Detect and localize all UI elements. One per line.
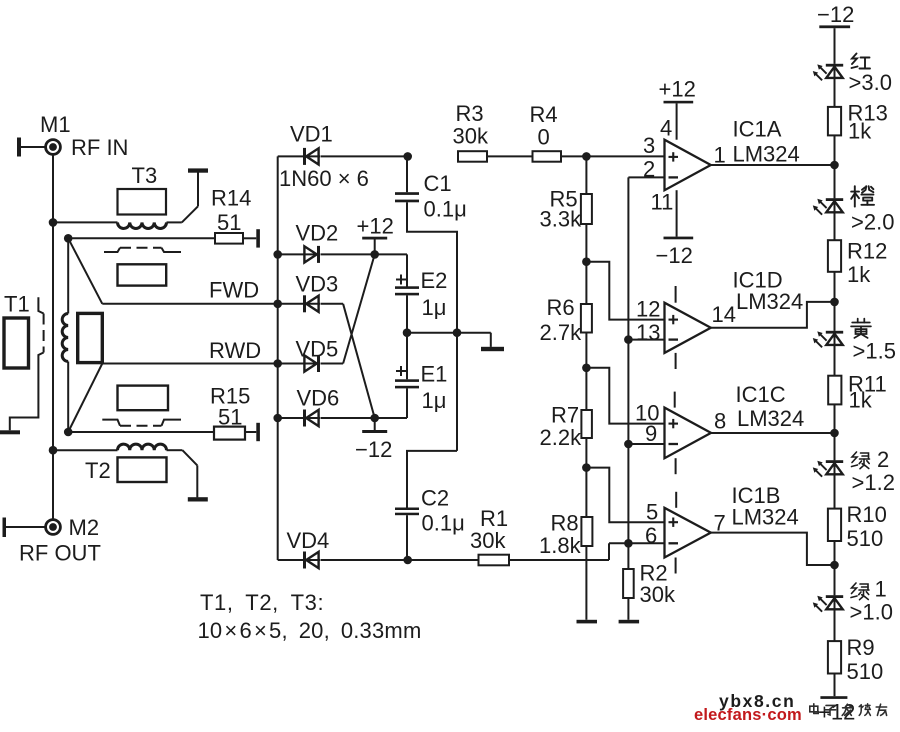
svg-text:LM324: LM324: [732, 505, 799, 530]
wire pin13: [628, 339, 664, 341]
LED green1: [834, 595, 836, 609]
wire R8 bottom: [585, 546, 587, 620]
svg-text:3: 3: [643, 133, 655, 158]
node R15 tap: [64, 428, 73, 437]
svg-text:2: 2: [877, 447, 889, 472]
wire diode bus: [277, 156, 279, 560]
wire RWD diagonal: [68, 364, 102, 433]
wire C1 bottom jog: [407, 202, 457, 451]
wire T3 stub up: [197, 173, 199, 207]
wire R1 to jog: [509, 559, 609, 561]
node C2 bottom: [403, 556, 412, 565]
power +12 bar: [362, 237, 387, 240]
wire E-mid: [407, 332, 491, 334]
svg-text:RWD: RWD: [209, 338, 261, 363]
wire VD1 to node: [321, 155, 408, 157]
wire E1 top: [406, 333, 408, 380]
wire FWD diagonal: [68, 238, 102, 303]
power -12 bar IC1A: [664, 237, 694, 240]
svg-text:>1.5: >1.5: [853, 339, 896, 364]
node VD5 row: [273, 359, 282, 368]
wire R7-R8: [585, 438, 587, 517]
svg-text:>1.0: >1.0: [850, 600, 893, 625]
LED green2: [834, 460, 836, 474]
resistor R7: [581, 410, 592, 438]
wire left sense line upper: [67, 238, 69, 313]
resistor R8: [581, 517, 592, 546]
svg-text:>2.0: >2.0: [851, 210, 894, 235]
node VD3 row: [273, 300, 282, 309]
svg-text:LM324: LM324: [733, 142, 800, 167]
wire C1 top: [406, 156, 408, 192]
wire IC1A V+ stub: [676, 103, 678, 139]
svg-text:4: 4: [660, 116, 672, 141]
svg-text:30k: 30k: [453, 124, 489, 149]
svg-text:30k: 30k: [470, 528, 506, 553]
resistor R3: [458, 151, 487, 162]
wire VD2 to E2: [321, 253, 408, 255]
node R5-R6: [582, 257, 591, 266]
resistor R13: [828, 107, 841, 135]
power -12 bar: [362, 430, 387, 433]
svg-text:R4: R4: [530, 102, 558, 127]
wire VD6 row left: [278, 417, 303, 419]
resistor R5: [581, 194, 592, 224]
wire IC1B V- stub: [675, 558, 677, 574]
resistor R1: [479, 555, 510, 566]
wire IC1A V- stub: [676, 190, 678, 236]
wire T2 coil to bend: [167, 449, 183, 451]
svg-text:+12: +12: [659, 77, 696, 102]
diode VD3: [303, 303, 320, 305]
diode VD6: [303, 417, 320, 419]
svg-text:51: 51: [218, 405, 242, 430]
svg-text:51: 51: [217, 210, 241, 235]
wire M1 terminal to connector: [21, 146, 46, 148]
svg-text:R14: R14: [211, 186, 251, 211]
svg-text:1: 1: [714, 143, 726, 168]
wire jog to C2: [407, 451, 457, 508]
ground R8: [577, 620, 598, 624]
capacitor E1 plus: [396, 370, 406, 372]
node IC1B out: [830, 561, 839, 570]
node pin13 tap: [624, 335, 633, 344]
svg-text:R8: R8: [551, 511, 579, 536]
wire IC1A output: [711, 164, 835, 166]
wire R14 to terminal: [243, 237, 256, 239]
wire to T2 coil: [53, 449, 118, 451]
capacitor E1: [395, 379, 419, 382]
resistor R12: [828, 240, 841, 272]
svg-text:E1: E1: [421, 362, 448, 387]
svg-text:VD4: VD4: [287, 528, 330, 553]
node IC1C out: [830, 429, 839, 438]
wire IC1D V+ stub: [675, 286, 677, 303]
terminal bar above T3: [188, 168, 208, 172]
wire RWD line: [102, 363, 277, 365]
wire IC1C V- stub: [675, 458, 677, 474]
capacitor E2: [395, 286, 419, 289]
wire R15 to terminal: [245, 431, 256, 433]
svg-text:11: 11: [651, 190, 674, 215]
wire LED orange to R12: [834, 212, 836, 240]
svg-text:IC1A: IC1A: [733, 117, 782, 142]
svg-text:6: 6: [645, 523, 657, 548]
diode VD2: [303, 253, 320, 255]
wire VD5 cross diagonal: [343, 254, 375, 363]
svg-text:C2: C2: [421, 486, 449, 511]
wire T3 coil to bend: [167, 221, 182, 223]
resistor R11: [828, 376, 841, 405]
svg-text:T2: T2: [85, 458, 111, 483]
ground R2: [619, 620, 640, 624]
wire LED yellow to R11: [834, 345, 836, 376]
svg-text:LM324: LM324: [737, 406, 804, 431]
label lv2 (green 2): [852, 452, 870, 469]
svg-text:VD1: VD1: [290, 122, 333, 147]
wire VD4 to R1: [321, 559, 479, 561]
svg-text:M1: M1: [40, 112, 71, 137]
wire IC1B output: [711, 533, 835, 565]
transformer T2 winding box: [118, 457, 167, 482]
wire pin6: [609, 542, 664, 544]
wire R5 top: [585, 156, 587, 194]
node T3 tap: [49, 218, 58, 227]
wire VD3 row left: [278, 303, 303, 305]
connector M1: [46, 140, 61, 155]
wire R13 to node: [834, 135, 836, 198]
svg-text:1: 1: [875, 577, 887, 602]
diode VD4: [303, 559, 320, 561]
wire VD2 row left: [278, 253, 303, 255]
wire LED green1 to R9: [834, 609, 836, 641]
transformer T2 core dashed: [102, 420, 120, 426]
wire R4 to pin3: [561, 155, 665, 157]
node E-mid right: [453, 328, 462, 337]
wire -12 stub: [374, 418, 376, 430]
svg-text:T1: T1: [4, 292, 30, 317]
svg-text:VD3: VD3: [296, 272, 339, 297]
wire tap to pin10: [586, 368, 664, 424]
wire pin2: [628, 176, 664, 178]
ground T2: [188, 497, 208, 501]
wire T2 stub down: [196, 465, 198, 497]
svg-text:8: 8: [714, 409, 726, 434]
svg-text:T1, T2, T3:: T1, T2, T3:: [200, 590, 324, 615]
svg-text:30k: 30k: [640, 582, 676, 607]
node R14 tap: [64, 234, 73, 243]
svg-text:LM324: LM324: [736, 289, 803, 314]
svg-text:FWD: FWD: [209, 278, 259, 303]
svg-text:R9: R9: [847, 635, 875, 660]
svg-text:1k: 1k: [848, 119, 872, 144]
svg-text:12: 12: [636, 297, 660, 322]
wire R12 to node: [834, 272, 836, 331]
wire IC1D V- stub: [675, 353, 677, 369]
LED yellow: [834, 331, 836, 345]
svg-text:2: 2: [643, 157, 655, 182]
node +12 tap: [370, 250, 379, 259]
wire left sense line lower: [67, 362, 69, 433]
wire IC1C output: [711, 432, 835, 434]
label lv1 (green 1): [851, 583, 869, 600]
svg-text:510: 510: [847, 526, 884, 551]
svg-text:2.7k: 2.7k: [540, 320, 583, 345]
wire +12 stub: [374, 239, 376, 254]
wire R11 to node: [834, 404, 836, 460]
svg-text:−12: −12: [817, 2, 854, 27]
svg-text:R6: R6: [547, 295, 575, 320]
svg-text:0.1μ: 0.1μ: [424, 197, 467, 222]
op-amp IC1B: [665, 508, 711, 558]
wire LED green2 to R10: [834, 474, 836, 508]
node T2 tap: [49, 446, 58, 455]
svg-text:+12: +12: [357, 214, 394, 239]
svg-text:R7: R7: [551, 403, 579, 428]
svg-text:RF OUT: RF OUT: [19, 541, 101, 566]
node R6-R7: [582, 364, 591, 373]
transformer T1 primary box: [4, 318, 29, 368]
transformer T3 FWD winding box: [118, 264, 167, 285]
node VD2 row: [273, 250, 282, 259]
svg-text:510: 510: [847, 659, 884, 684]
wire VD6 to E1: [321, 417, 408, 419]
wire inverting bus: [627, 177, 629, 569]
connector M2 terminal bar: [3, 518, 7, 538]
wire tap to pin12: [586, 262, 664, 320]
node VD1 output: [403, 152, 412, 161]
wire main line M1 to M2: [52, 154, 54, 519]
wire IC1C V+ stub: [674, 392, 676, 408]
svg-text:VD2: VD2: [296, 221, 339, 246]
svg-text:C1: C1: [424, 171, 452, 196]
capacitor E2 plus: [396, 279, 406, 281]
ground E-mid: [481, 347, 504, 351]
svg-text:10 × 6 × 5, 20, 0.33mm: 10 × 6 × 5, 20, 0.33mm: [198, 618, 422, 643]
wire tap to pin5: [586, 468, 664, 523]
wire M2 terminal to connector: [6, 526, 46, 528]
transformer T2 RWD winding box: [118, 386, 169, 411]
svg-text:5: 5: [646, 500, 658, 525]
wire to R15: [68, 431, 214, 433]
wire IC1D output: [711, 302, 835, 328]
wire R9 to +12: [834, 674, 836, 697]
watermark dianzifashaoyou: [810, 704, 887, 716]
svg-text:E2: E2: [421, 268, 448, 293]
wire R3 to R4: [487, 155, 533, 157]
wire to R14: [68, 237, 215, 239]
wire VD4 row left: [278, 559, 303, 561]
power +12 bar IC1A: [664, 101, 694, 104]
diode VD1: [303, 155, 320, 157]
wire IC1B V+ stub: [675, 492, 677, 508]
svg-text:R10: R10: [847, 502, 887, 527]
capacitor C1: [395, 192, 419, 195]
node IC1A out: [830, 161, 839, 170]
wire VD5 right: [321, 363, 344, 365]
wire -12 to LED red: [834, 28, 836, 64]
svg-text:14: 14: [712, 302, 736, 327]
diode VD5: [303, 363, 320, 365]
svg-text:RF IN: RF IN: [71, 135, 128, 160]
label hong (red): [852, 54, 871, 69]
power -12 bar top: [819, 25, 850, 28]
wire E1 bottom: [406, 388, 408, 418]
svg-text:0.1μ: 0.1μ: [422, 511, 465, 536]
svg-text:1.8k: 1.8k: [539, 533, 582, 558]
wire VD1 row left: [278, 155, 303, 157]
svg-text:1k: 1k: [849, 388, 873, 413]
label huang (yellow): [851, 319, 871, 338]
transformer T3 coil: [118, 222, 167, 228]
wire R2 bottom: [627, 598, 629, 620]
node -12 tap: [370, 414, 379, 423]
svg-text:VD5: VD5: [296, 337, 339, 362]
svg-text:R12: R12: [847, 239, 887, 264]
resistor R6: [581, 304, 592, 333]
node R4 output: [582, 152, 591, 161]
label cheng (orange): [851, 186, 874, 206]
wire R6-R7: [585, 333, 587, 411]
transformer T2 coil: [118, 444, 167, 450]
resistor R14: [215, 233, 243, 244]
node E-mid left: [403, 328, 412, 337]
wire VD5 row left: [278, 363, 303, 365]
wire to T3 coil: [53, 221, 118, 223]
capacitor C2: [395, 508, 419, 511]
ground T1: [0, 430, 20, 434]
svg-text:9: 9: [645, 421, 657, 446]
node pin9 tap: [624, 440, 633, 449]
LED orange: [834, 198, 836, 212]
terminal bar R15: [256, 423, 260, 441]
svg-text:1k: 1k: [847, 262, 871, 287]
resistor R4: [533, 151, 562, 162]
svg-text:2.2k: 2.2k: [540, 425, 583, 450]
terminal bar R14: [256, 229, 260, 247]
wire pin9: [628, 443, 664, 445]
svg-text:elecfans·com: elecfans·com: [694, 706, 802, 724]
svg-text:0: 0: [538, 125, 550, 150]
op-amp IC1D: [665, 303, 711, 353]
resistor R9: [828, 641, 841, 673]
svg-text:T3: T3: [132, 163, 158, 188]
connector M2: [46, 520, 61, 535]
node pin6 tap: [624, 539, 633, 548]
LED red: [834, 64, 836, 78]
wire R1 jog up: [608, 543, 610, 560]
wire FWD line: [102, 303, 277, 305]
wire T2 diagonal: [182, 450, 197, 465]
wire C2 bottom: [406, 515, 408, 560]
power +12 bar bottom: [820, 696, 847, 699]
wire VD3 right: [321, 303, 344, 305]
svg-text:1N60 × 6: 1N60 × 6: [279, 166, 369, 191]
svg-text:−12: −12: [355, 437, 392, 462]
transformer T3 core dashed: [104, 248, 120, 252]
op-amp IC1C: [665, 408, 712, 459]
svg-text:13: 13: [636, 320, 660, 345]
svg-text:IC1C: IC1C: [736, 382, 786, 407]
svg-text:>1.2: >1.2: [852, 470, 895, 495]
wire T3 diagonal: [182, 206, 198, 222]
wire VD3 cross diagonal: [343, 304, 375, 418]
transformer T1 coil: [62, 314, 68, 362]
svg-text:R3: R3: [456, 101, 484, 126]
svg-text:1μ: 1μ: [422, 388, 447, 413]
svg-text:1μ: 1μ: [422, 295, 447, 320]
wire R10 to node: [834, 541, 836, 595]
transformer T1 core dashed: [38, 297, 43, 313]
wire E2 bottom: [406, 295, 408, 332]
svg-text:−12: −12: [656, 243, 693, 268]
transformer T3 winding box: [118, 189, 167, 215]
resistor R15: [214, 427, 245, 440]
wire LED red to R13: [834, 78, 836, 107]
transformer T1 secondary box: [78, 313, 103, 362]
node R7-R8: [582, 463, 591, 472]
svg-text:>3.0: >3.0: [849, 70, 892, 95]
wire R5-R6: [585, 224, 587, 304]
resistor R10: [828, 509, 841, 541]
connector M1 terminal bar: [17, 138, 21, 157]
svg-text:VD6: VD6: [297, 386, 340, 411]
wire ground stub E-mid: [490, 333, 492, 347]
resistor R2: [623, 569, 634, 598]
node IC1D out: [830, 298, 839, 307]
svg-text:M2: M2: [69, 515, 100, 540]
node VD6 row: [273, 414, 282, 423]
svg-text:3.3k: 3.3k: [540, 207, 583, 232]
op-amp IC1A: [665, 140, 711, 191]
